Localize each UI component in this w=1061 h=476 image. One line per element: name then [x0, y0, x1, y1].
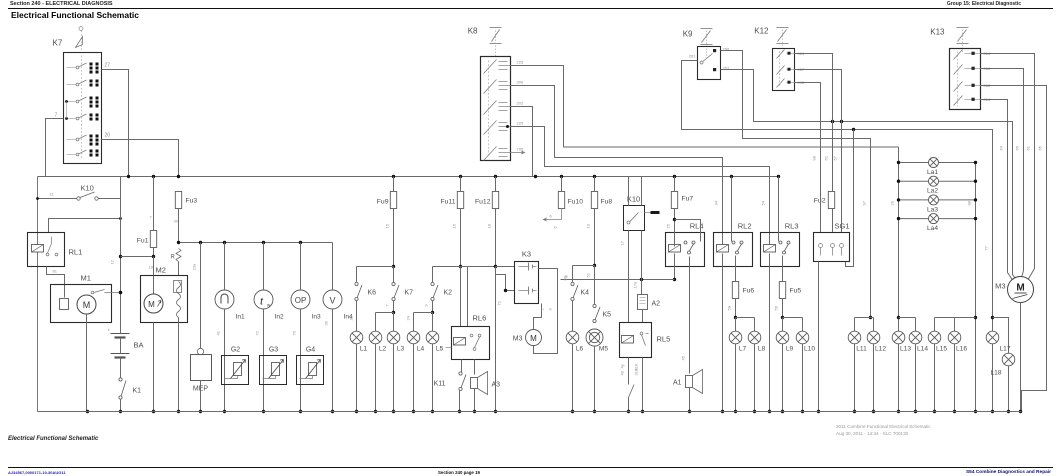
wire L2 branch [376, 312, 394, 314]
node node Fu12 out [494, 265, 497, 268]
svg-text:R: R [171, 255, 176, 261]
svg-text:15: 15 [385, 223, 390, 228]
wire bus to Fu10 [561, 177, 563, 192]
wire M3 to ground bus end [1020, 303, 1022, 412]
wire M2 motor to ground [153, 323, 155, 412]
wire L15 branch [935, 317, 976, 319]
lever symbol for K8 [490, 28, 502, 57]
horn A3 [471, 372, 488, 395]
svg-text:V: V [329, 296, 335, 306]
sender G2 element [225, 360, 246, 379]
svg-text:41: 41 [216, 330, 221, 335]
svg-text:72: 72 [255, 330, 260, 335]
K7 internal selector dashed line [81, 56, 83, 159]
node La1 right [974, 161, 977, 164]
wire RL3 coil ground [769, 254, 771, 412]
wire K7 pin27 to bus [102, 70, 129, 177]
node La3 right [974, 198, 977, 201]
wire L4 branch [414, 312, 433, 314]
wire Fu1 to node [153, 248, 155, 257]
svg-text:261: 261 [689, 54, 696, 59]
node gnd-A1 [688, 410, 691, 413]
fuse Fu7 [671, 192, 693, 209]
K3 contact upper [519, 263, 537, 271]
sender G4 box [297, 356, 324, 385]
svg-text:In1: In1 [236, 314, 245, 321]
wire K7 internal link [66, 102, 68, 119]
svg-text:L4: L4 [417, 346, 425, 353]
node gnd-L17 [991, 410, 994, 413]
wire K12 061 wire [795, 54, 833, 192]
wire K1 to ground [120, 399, 122, 412]
K9 internal contact [700, 49, 716, 71]
node node 120-218 [119, 217, 122, 220]
wire K2 to node [432, 301, 434, 313]
svg-text:49: 49 [620, 370, 625, 375]
node bus-Fu10 [560, 175, 563, 178]
lamp L8 [748, 331, 765, 352]
RL3 coil [764, 245, 776, 253]
K8 contact row 228 [484, 60, 511, 74]
wire K9 left wire [682, 61, 993, 332]
node ib-Fu3 [177, 241, 180, 244]
svg-text:L11: L11 [856, 346, 867, 353]
svg-text:24: 24 [406, 315, 411, 320]
wire K13 064 wire [981, 100, 1014, 282]
switch K7b [392, 282, 413, 300]
svg-text:La1: La1 [927, 169, 938, 176]
M1 solenoid rect [60, 299, 69, 310]
svg-text:202: 202 [517, 101, 524, 106]
node La1 left [897, 161, 900, 164]
wire RL4 second pin feed [675, 220, 701, 242]
svg-text:16: 16 [452, 223, 457, 228]
node gnd-M1 [86, 410, 89, 413]
wire RL5 switch to ground [628, 398, 630, 412]
svg-text:L16: L16 [956, 346, 967, 353]
K7 contact row pin 5 [67, 135, 99, 146]
sender G2 box [222, 356, 249, 385]
wire R to M2 [178, 262, 180, 276]
K8 contact row 705 [484, 147, 511, 161]
node gnd-K1 [119, 410, 122, 413]
node gnd-L14 [914, 410, 917, 413]
relay RL2 [714, 233, 753, 267]
svg-text:In2: In2 [275, 314, 284, 321]
RL5 contact [640, 332, 648, 345]
wire L6 to ground [572, 344, 574, 412]
svg-text:La3: La3 [927, 206, 938, 213]
node node K10-37 [36, 197, 39, 200]
svg-text:19: 19 [149, 265, 154, 270]
wire K3 pin2 feed [496, 275, 515, 291]
RL5 coil [622, 336, 634, 344]
node node Fu11 out [459, 265, 462, 268]
fuse Fu2 [814, 192, 835, 209]
node bus-Fu8 [593, 175, 596, 178]
wire K6 to L1 [356, 301, 358, 332]
node node 641-279 [640, 278, 643, 281]
node node K3 pin2 [504, 289, 507, 292]
svg-text:RL1: RL1 [69, 248, 83, 257]
wire In4 to ground [332, 309, 334, 412]
wire K2 drop [432, 267, 434, 283]
node bus-Fu11 [459, 175, 462, 178]
wire bus to K10 pin b [641, 177, 643, 206]
wire In2 to G3 and ground [263, 309, 265, 412]
svg-text:11: 11 [50, 192, 55, 197]
svg-text:7: 7 [385, 304, 390, 307]
svg-text:8: 8 [564, 275, 569, 278]
wire bus to Fu1 [153, 177, 155, 231]
wire Fu12 down [495, 209, 497, 267]
wire K11 to ground [459, 391, 461, 412]
wire K6 drop [356, 267, 358, 283]
wire bus to Fu7 [674, 177, 676, 192]
wire RL4 pin74 to A1 [689, 257, 691, 374]
svg-text:20: 20 [105, 133, 111, 139]
wire Fu12 down2 [495, 267, 497, 412]
node La2 right [974, 180, 977, 183]
node bus-K7a [127, 175, 130, 178]
svg-text:71: 71 [497, 300, 502, 305]
lamp M5 indicator [586, 329, 608, 353]
wire L15 to ground [934, 344, 936, 412]
switch K11 [459, 372, 466, 391]
lamp La1 [927, 158, 939, 177]
node gnd-L13 [897, 410, 900, 413]
K10 right contact [627, 213, 639, 225]
switch K2 [431, 282, 452, 300]
K8 internal junction [506, 125, 509, 128]
svg-text:K11: K11 [434, 381, 446, 388]
svg-text:18: 18 [487, 223, 492, 228]
lamp L12 [867, 331, 886, 352]
wire L14 drop [915, 318, 917, 332]
wire RL1 contact feed [49, 219, 121, 233]
wire L7 drop [735, 318, 737, 332]
fuse Fu8 [591, 192, 612, 209]
svg-text:RL5: RL5 [657, 335, 671, 344]
node node L7L8 [734, 316, 737, 319]
lever symbol for K9 [701, 29, 713, 59]
RL2 contact [732, 241, 735, 244]
node gnd-976 [974, 410, 977, 413]
svg-text:BA: BA [134, 341, 144, 350]
K12 contact row 098 [777, 79, 795, 88]
wire L11 branch [855, 317, 874, 319]
wire MEP feed [200, 243, 202, 349]
svg-text:M3: M3 [513, 336, 523, 343]
motor M1 [77, 295, 96, 314]
node bus-Fu12 [494, 175, 497, 178]
svg-text:4y: 4y [620, 364, 625, 368]
svg-text:A1: A1 [673, 380, 682, 387]
wire K7 pin7 to bus corner [46, 119, 64, 177]
wire Fu8 down [594, 209, 596, 266]
K13 internal dashed line [957, 52, 959, 107]
wire K7b to node [393, 301, 395, 313]
wire La3 row [899, 199, 976, 201]
key switch K7 [64, 53, 102, 164]
svg-text:A2: A2 [652, 301, 661, 308]
wire MEP to ground [200, 381, 202, 412]
svg-text:45: 45 [681, 355, 686, 360]
svg-text:K7: K7 [53, 39, 63, 48]
wire K12 098 wire [795, 83, 821, 233]
node La4 right [974, 217, 977, 220]
lamp L4 [407, 331, 424, 352]
svg-text:L15: L15 [936, 346, 947, 353]
wire L16 to ground [954, 344, 956, 412]
wire L4 to ground [413, 344, 415, 412]
node gnd-M2b [177, 410, 180, 413]
SG1 element 2 [831, 244, 835, 256]
node gnd-RL2 [721, 410, 724, 413]
node gnd-L2 [374, 410, 377, 413]
node node L11L12 [869, 316, 872, 319]
svg-text:M5: M5 [599, 346, 608, 353]
RL4 contact [684, 241, 687, 244]
wire L18 branch [993, 318, 1009, 354]
fuse Fu12 [475, 192, 499, 209]
motor M3 small [526, 330, 542, 346]
M2 coil top rect [174, 281, 182, 293]
node gnd-L6 [571, 410, 574, 413]
wire K4 drop [572, 266, 574, 283]
wire SG1 side feed [846, 130, 854, 267]
wire SG1 to ground [818, 262, 820, 412]
lamp L9 [776, 331, 793, 352]
K7 contact row pin 6 [67, 150, 99, 157]
node gnd-In1 [223, 410, 226, 413]
wire K10 right lead [99, 198, 121, 200]
wire RL2 out to Fu6 [735, 256, 737, 282]
wire RL6 to A3 [474, 360, 476, 375]
gauge In3 [291, 290, 321, 321]
wire La1 row [899, 162, 976, 164]
node ib-MEP [199, 241, 202, 244]
node ib-In1 [223, 241, 226, 244]
fuse Fu3 [175, 192, 197, 209]
K13 contact row 065 [954, 82, 981, 92]
lamp L16 [948, 331, 967, 352]
wire bus to RL2 pin [731, 177, 733, 242]
wire K10 to RL5 coil [628, 231, 630, 323]
wire Fu3 to inst bus [178, 209, 180, 243]
svg-text:81: 81 [53, 269, 58, 274]
node bus-Fu3 [177, 175, 180, 178]
wire K5 drop [594, 266, 596, 305]
node node 841-121 [840, 120, 843, 123]
wire In1 feed [224, 243, 226, 291]
resistor R [176, 249, 181, 262]
wire RL2 coil ground [722, 254, 724, 412]
svg-text:K1: K1 [133, 388, 142, 395]
svg-text:Fu9: Fu9 [377, 199, 389, 206]
wire In3 to G4 and ground [300, 309, 302, 412]
node node L2L3 [392, 311, 395, 314]
svg-text:Fu1: Fu1 [137, 238, 149, 245]
relay RL4 [666, 233, 705, 267]
svg-text:OP: OP [295, 296, 307, 305]
svg-text:M: M [530, 334, 537, 343]
svg-text:L18: L18 [990, 370, 1001, 377]
svg-text:9: 9 [424, 304, 429, 307]
wire K10 to A2 [641, 231, 643, 295]
node gnd-M5 [593, 410, 596, 413]
wire K3 to M3 top [534, 304, 542, 330]
RL1 contact [46, 237, 58, 256]
wire K12 057 wire [795, 70, 842, 233]
node battery tap m1 [119, 291, 122, 294]
node gnd-In2 [262, 410, 265, 413]
wire L8 to ground [754, 344, 756, 412]
lamp La2 [927, 176, 939, 195]
node gnd-L3 [392, 410, 395, 413]
svg-text:Fu8: Fu8 [601, 199, 613, 206]
node gnd-RL3 [768, 410, 771, 413]
wire In4 feed [332, 243, 334, 291]
svg-text:L1: L1 [360, 346, 368, 353]
svg-text:10: 10 [586, 223, 591, 228]
wire L18 to ground [1008, 366, 1010, 412]
wire A2 to RL5 [642, 310, 644, 323]
wire La4 row [899, 218, 976, 220]
wire L2 to ground [375, 344, 377, 412]
svg-text:Fu5: Fu5 [790, 288, 802, 295]
wire M1 to ground [86, 314, 88, 412]
unit A2 [638, 295, 648, 310]
wire L9 drop [782, 318, 784, 332]
svg-text:6: 6 [553, 226, 558, 229]
svg-text:12: 12 [110, 259, 115, 264]
wire L1 to ground [356, 344, 358, 412]
svg-text:L17: L17 [1000, 346, 1011, 353]
svg-text:23: 23 [349, 315, 354, 320]
svg-text:K5: K5 [603, 312, 612, 319]
lamp L2 [369, 331, 386, 352]
node bus-Fu9 [392, 175, 395, 178]
wire L13 to ground [898, 344, 900, 412]
svg-text:L6: L6 [576, 346, 584, 353]
M2 field coil [177, 282, 181, 318]
svg-text:Fu2: Fu2 [814, 198, 826, 205]
K12 contact row 061 [777, 50, 795, 59]
wire L10 drop [802, 318, 804, 332]
wire La right rail down [975, 163, 977, 412]
svg-text:228: 228 [517, 60, 524, 65]
node La3 left [897, 198, 900, 201]
svg-text:61: 61 [824, 155, 829, 160]
lamp L17 [986, 331, 999, 344]
svg-text:98: 98 [812, 155, 817, 160]
svg-text:K2: K2 [444, 290, 453, 297]
SG1 element 1 [819, 244, 823, 256]
switch K4 [571, 282, 589, 300]
node node 853-129 [852, 128, 855, 131]
svg-text:Fu11: Fu11 [441, 199, 456, 206]
svg-text:L2: L2 [379, 346, 387, 353]
svg-text:27: 27 [105, 63, 111, 69]
wire Fu1 node to M2 [153, 257, 155, 276]
wire M2 coil to ground [178, 318, 180, 412]
wire K13 065 wire [981, 86, 1047, 412]
M1 internal switch [91, 290, 120, 294]
relay RL3 [761, 233, 800, 267]
wire K4 branch [573, 265, 595, 267]
wire L14 branch [899, 317, 916, 319]
RL4 coil [669, 245, 681, 253]
wire K10 left lead [38, 198, 77, 200]
footer [8, 436, 98, 442]
svg-text:76: 76 [292, 330, 297, 335]
wire bus to Fu12 [495, 177, 497, 192]
wire Fu12 to K3 pin1 [496, 266, 515, 268]
wire L8 drop [754, 318, 756, 332]
lamp L18 [1002, 353, 1015, 366]
relay RL1 [28, 233, 65, 267]
wire RL1 to M1 [47, 267, 65, 298]
relay RL6 [452, 327, 490, 360]
wire battery tap to Fu1 link [121, 256, 154, 258]
wire In2 feed [263, 243, 265, 291]
svg-text:58: 58 [727, 305, 732, 310]
node node Fu7 branch [673, 218, 676, 221]
battery BA [108, 328, 130, 358]
wire main power bus [38, 176, 779, 178]
sender G3 element [263, 360, 284, 379]
svg-text:17a: 17a [633, 281, 638, 288]
lamp L6 [566, 331, 583, 352]
switch K9 [698, 47, 721, 80]
svg-text:229: 229 [517, 121, 524, 126]
node M1 switch node [119, 291, 122, 294]
svg-text:34: 34 [714, 200, 719, 205]
wire L12 to ground [873, 344, 875, 412]
K13 contact row 061 [954, 50, 981, 60]
node gnd-A3 [473, 410, 476, 413]
svg-text:77: 77 [984, 245, 989, 250]
svg-text:17: 17 [620, 240, 625, 245]
svg-text:K4: K4 [581, 290, 590, 297]
wire L15 drop [934, 318, 936, 332]
RL1 coil [32, 245, 44, 253]
wire Fu2 to SG1 [832, 209, 834, 233]
switch K10 right [624, 206, 645, 231]
wire K4 to L6 [572, 301, 574, 332]
wire La2 row [899, 180, 976, 182]
lamp L5 [426, 331, 443, 352]
node gnd-RL5a [627, 410, 630, 413]
wire Fu11 down [460, 209, 462, 267]
svg-text:25: 25 [666, 223, 671, 228]
lamp La4 [927, 214, 939, 233]
node gnd-RL5b [641, 410, 644, 413]
lever symbol for K12 [777, 28, 789, 53]
node battery tap fu1 [119, 255, 122, 258]
wire K8 229 wire [511, 127, 770, 247]
K7 contact row pin 3 [67, 97, 99, 108]
svg-text:L12: L12 [875, 346, 886, 353]
K13 contact row 066 [954, 65, 981, 75]
sender G3 box [260, 356, 287, 385]
motor M2 box [141, 276, 188, 323]
node node Fu8 out [593, 264, 596, 267]
wire K3 loop right [534, 269, 558, 354]
wire battery to K1 [120, 358, 122, 378]
K12 contact row 057 [777, 66, 795, 75]
